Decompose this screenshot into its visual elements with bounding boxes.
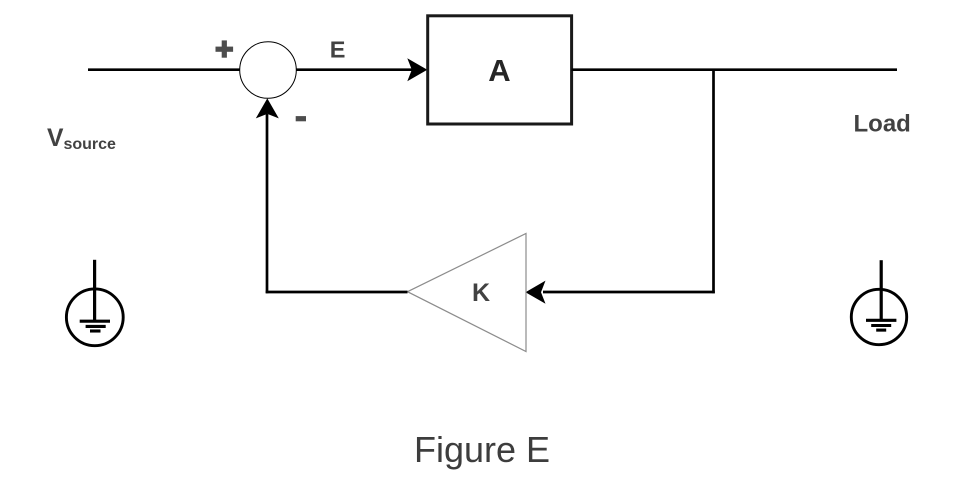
summing junction <box>240 42 297 99</box>
svg-text:Vsource: Vsource <box>47 125 116 153</box>
arrowhead into K <box>526 281 546 304</box>
svg-text:K: K <box>472 279 490 307</box>
ground left bars <box>80 321 110 331</box>
wire feedback right horizontal into K <box>543 291 715 294</box>
arrowhead into A <box>407 58 427 81</box>
wire feedback vertical up to summing junction <box>266 114 269 293</box>
wire input left to summing junction <box>88 68 240 71</box>
svg-text:E: E <box>330 37 346 63</box>
ground right bars <box>866 320 896 330</box>
wire A output to Load <box>572 68 898 71</box>
feedback amplifier K triangle <box>408 234 527 352</box>
ground right stem <box>880 260 883 320</box>
wire junction down from output node <box>712 70 715 294</box>
plus sign <box>216 40 234 57</box>
arrowhead into summing junction <box>256 98 279 118</box>
svg-text:Load: Load <box>854 110 911 137</box>
svg-text:Figure E: Figure E <box>414 429 550 470</box>
ground right circle <box>851 289 906 344</box>
ground left stem <box>93 260 96 321</box>
svg-text:A: A <box>488 53 510 88</box>
wire feedback left horizontal from K <box>266 291 408 294</box>
amplifier block A <box>428 16 572 124</box>
ground left circle <box>66 289 123 346</box>
wire E summing junction to amplifier A <box>296 68 412 71</box>
minus sign <box>296 116 306 121</box>
